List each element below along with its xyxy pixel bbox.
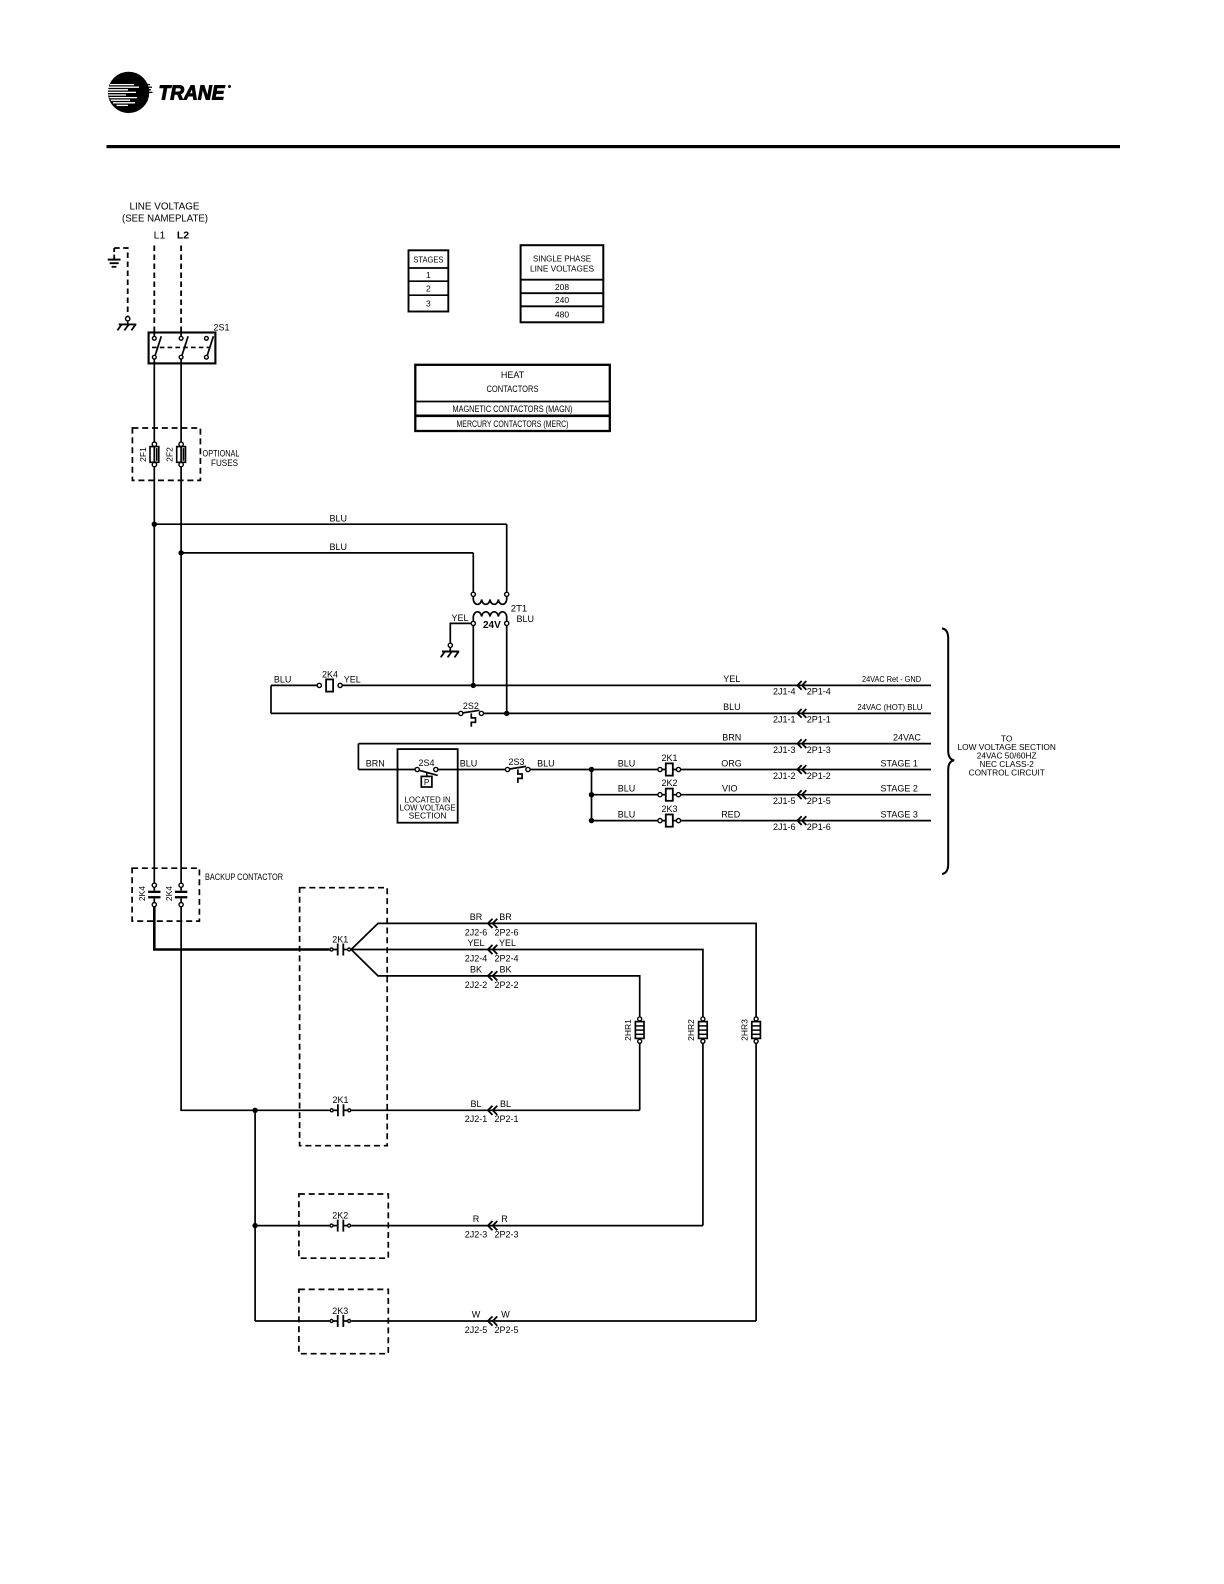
node junction stage bus mid xyxy=(589,792,594,797)
svg-text:CONTROL CIRCUIT: CONTROL CIRCUIT xyxy=(969,768,1045,778)
chassis ground (top left) xyxy=(117,317,136,331)
svg-text:2P1-1: 2P1-1 xyxy=(807,715,831,725)
svg-text:STAGE 2: STAGE 2 xyxy=(881,784,918,794)
svg-text:2J1-6: 2J1-6 xyxy=(773,822,796,832)
svg-text:VIO: VIO xyxy=(722,784,738,794)
svg-text:2J2-5: 2J2-5 xyxy=(465,1325,488,1335)
svg-text:BLU: BLU xyxy=(723,702,741,712)
wire R row left xyxy=(255,1225,329,1227)
wire 2HR1 bottom to BL row xyxy=(639,1043,641,1110)
svg-text:RED: RED xyxy=(721,809,741,819)
node junction BL branch xyxy=(252,1108,257,1113)
svg-text:MAGNETIC CONTACTORS (MAGN): MAGNETIC CONTACTORS (MAGN) xyxy=(453,404,573,414)
wire W row xyxy=(351,1320,756,1322)
relay coil 2K1 xyxy=(658,753,681,776)
svg-text:2P2-1: 2P2-1 xyxy=(494,1114,518,1124)
connector 2J1-3/2P1-3 xyxy=(773,739,831,755)
svg-text:2J1-1: 2J1-1 xyxy=(773,715,796,725)
svg-text:2S2: 2S2 xyxy=(463,701,479,711)
svg-text:FUSES: FUSES xyxy=(211,458,238,468)
svg-text:BLU: BLU xyxy=(329,513,347,523)
node junction YEL-secondary xyxy=(471,683,476,688)
wire secondary left drop xyxy=(472,626,474,686)
svg-text:W: W xyxy=(472,1310,481,1320)
heat contactors table xyxy=(415,365,610,431)
svg-text:2K1: 2K1 xyxy=(332,934,348,944)
svg-text:LINE VOLTAGES: LINE VOLTAGES xyxy=(530,264,594,274)
node junction L1-BLU xyxy=(152,522,157,527)
svg-text:2P2-3: 2P2-3 xyxy=(494,1230,518,1240)
brace to low voltage section xyxy=(942,628,954,874)
svg-text:OPTIONAL: OPTIONAL xyxy=(203,449,240,459)
connector 2J1-6/2P1-6 xyxy=(773,816,831,832)
contact 2K1 (lower) xyxy=(330,1095,351,1116)
svg-text:1: 1 xyxy=(426,270,431,280)
svg-text:STAGE 1: STAGE 1 xyxy=(881,758,918,768)
svg-text:2J1-4: 2J1-4 xyxy=(773,687,796,697)
svg-text:BLU: BLU xyxy=(537,758,555,768)
switch 2S3 xyxy=(505,757,530,783)
relay coil 2K3 xyxy=(658,804,681,827)
svg-text:2J2-6: 2J2-6 xyxy=(465,927,488,937)
svg-text:P: P xyxy=(424,777,430,787)
svg-text:2S3: 2S3 xyxy=(508,757,524,767)
wire STAGE2 row xyxy=(592,794,932,796)
svg-text:BRN: BRN xyxy=(722,732,741,742)
svg-text:BLU: BLU xyxy=(618,758,636,768)
wire BRN stub to 2S4 xyxy=(358,769,415,771)
heater 2HR2 xyxy=(686,1017,707,1043)
wire STAGE3 row xyxy=(592,820,932,822)
svg-text:3: 3 xyxy=(426,299,431,309)
svg-text:BACKUP CONTACTOR: BACKUP CONTACTOR xyxy=(205,872,283,883)
chassis ground (transformer) xyxy=(441,643,460,657)
svg-text:2K2: 2K2 xyxy=(661,778,677,788)
optional fuses dashed box xyxy=(132,428,200,480)
svg-text:(SEE NAMEPLATE): (SEE NAMEPLATE) xyxy=(122,213,208,225)
svg-text:2K4: 2K4 xyxy=(164,886,174,901)
svg-text:TRANE: TRANE xyxy=(159,83,226,105)
svg-text:STAGES: STAGES xyxy=(413,255,443,265)
svg-text:2HR2: 2HR2 xyxy=(686,1019,696,1041)
svg-text:YEL: YEL xyxy=(452,613,469,623)
svg-text:24VAC (HOT) BLU: 24VAC (HOT) BLU xyxy=(857,702,922,712)
wire YEL to ground xyxy=(450,623,471,643)
wire BLU lower xyxy=(181,552,473,554)
svg-text:2J2-1: 2J2-1 xyxy=(465,1114,488,1124)
wire secondary right drop xyxy=(506,626,508,714)
node junction R branch xyxy=(252,1223,257,1228)
wire L2 rail xyxy=(180,359,182,883)
svg-text:L2: L2 xyxy=(177,230,189,242)
svg-text:BRN: BRN xyxy=(366,758,385,768)
svg-text:2F2: 2F2 xyxy=(165,447,175,462)
svg-text:BLU: BLU xyxy=(517,614,535,624)
svg-text:208: 208 xyxy=(555,282,569,292)
svg-text:480: 480 xyxy=(555,310,569,320)
svg-text:SINGLE PHASE: SINGLE PHASE xyxy=(533,254,591,264)
wire fan BK xyxy=(351,950,640,1017)
svg-text:BLU: BLU xyxy=(274,674,292,684)
svg-text:2K1: 2K1 xyxy=(332,1095,348,1105)
svg-text:2J2-3: 2J2-3 xyxy=(465,1230,488,1240)
switch 2S2 xyxy=(459,701,484,727)
svg-text:2J1-3: 2J1-3 xyxy=(773,745,796,755)
node junction stage bus top xyxy=(589,767,594,772)
wire 2HR2 bottom to R row xyxy=(702,1043,704,1225)
wire fan BR xyxy=(351,923,756,1016)
heater 2HR3 xyxy=(739,1017,760,1043)
svg-text:HEAT: HEAT xyxy=(501,370,525,380)
wire BLU upper xyxy=(154,523,506,525)
wire L1 rail xyxy=(153,359,155,883)
svg-text:R: R xyxy=(501,1214,508,1224)
svg-text:2P2-4: 2P2-4 xyxy=(494,953,518,963)
dashed box 2K3 xyxy=(299,1289,388,1353)
wire BLU row (24VAC HOT) xyxy=(271,712,459,714)
pressure switch 2S4 box xyxy=(398,749,458,823)
wire dashed ground jumper xyxy=(114,248,128,316)
svg-text:BLU: BLU xyxy=(460,758,478,768)
relay coil 2K2 xyxy=(658,778,681,801)
node junction BLU-secondary xyxy=(504,711,509,716)
svg-text:2J1-5: 2J1-5 xyxy=(773,796,796,806)
Trane logo circle xyxy=(108,72,153,113)
wire W row left xyxy=(255,1320,329,1322)
contact 2K4-a xyxy=(137,883,160,907)
transformer 2T1 xyxy=(452,592,535,631)
svg-text:YEL: YEL xyxy=(723,674,740,684)
svg-text:2F1: 2F1 xyxy=(138,447,148,462)
svg-text:BLU: BLU xyxy=(618,784,636,794)
svg-text:2J2-2: 2J2-2 xyxy=(465,980,488,990)
connector 2J2-3/2P2-3 xyxy=(465,1214,519,1239)
wire fan YEL xyxy=(351,950,703,1017)
wire R row xyxy=(351,1225,703,1227)
contact 2K3 xyxy=(330,1306,351,1327)
svg-text:2K3: 2K3 xyxy=(332,1306,348,1316)
svg-text:2P1-5: 2P1-5 xyxy=(807,796,831,806)
connector 2J1-1/2P1-1 xyxy=(773,709,831,725)
connector 2J1-4/2P1-4 xyxy=(773,681,831,697)
svg-text:2: 2 xyxy=(426,283,431,293)
wire STAGE1 row xyxy=(530,769,931,771)
contact 2K1 (upper) xyxy=(330,934,351,955)
contact 2K2 xyxy=(330,1211,351,1232)
svg-text:CONTACTORS: CONTACTORS xyxy=(487,384,539,394)
connector 2J2-1/2P2-1 xyxy=(465,1099,519,1124)
single phase line voltages table xyxy=(521,245,604,322)
contact 2K4-b xyxy=(164,883,187,907)
svg-text:2P1-4: 2P1-4 xyxy=(807,687,831,697)
svg-text:BK: BK xyxy=(499,965,511,975)
svg-text:2P1-2: 2P1-2 xyxy=(807,771,831,781)
node junction L2-BLU xyxy=(178,550,183,555)
svg-text:BR: BR xyxy=(470,912,483,922)
connector 2J2-2/2P2-2 xyxy=(465,965,519,990)
svg-text:2P2-5: 2P2-5 xyxy=(494,1325,518,1335)
svg-text:24VAC: 24VAC xyxy=(893,732,921,742)
svg-text:2P2-2: 2P2-2 xyxy=(494,980,518,990)
wire L2 dashed drop xyxy=(180,246,182,333)
wire L2 down to BL row xyxy=(181,907,330,1111)
wire BL row xyxy=(351,1109,639,1111)
svg-text:MERCURY CONTACTORS (MERC): MERCURY CONTACTORS (MERC) xyxy=(457,419,569,429)
earth ground xyxy=(108,248,121,267)
svg-text:2J1-2: 2J1-2 xyxy=(773,771,796,781)
svg-text:2S1: 2S1 xyxy=(214,323,230,333)
svg-text:W: W xyxy=(501,1310,510,1320)
wire YEL row (24VAC Ret) xyxy=(342,684,931,686)
connector 2J2-4/2P2-4 xyxy=(465,938,519,963)
disconnect switch 2S1 xyxy=(149,323,230,364)
svg-text:YEL: YEL xyxy=(344,674,361,684)
svg-text:2S4: 2S4 xyxy=(418,758,434,768)
svg-text:24VAC Ret - GND: 24VAC Ret - GND xyxy=(862,674,921,684)
connector 2J1-2/2P1-2 xyxy=(773,765,831,781)
svg-text:YEL: YEL xyxy=(499,938,516,948)
header rule xyxy=(107,145,1121,148)
dashed box 2K2 xyxy=(299,1194,388,1258)
svg-text:2K4: 2K4 xyxy=(137,886,147,901)
connector 2J2-5/2P2-5 xyxy=(465,1310,519,1335)
relay coil 2K4 xyxy=(317,669,342,691)
svg-text:BL: BL xyxy=(500,1099,511,1109)
svg-text:2HR3: 2HR3 xyxy=(739,1019,749,1041)
svg-text:BR: BR xyxy=(499,912,512,922)
wire 2S4 to 2S3 xyxy=(438,769,506,771)
note: TO LOW VOLTAGE SECTION xyxy=(958,734,1056,778)
svg-text:24V: 24V xyxy=(483,620,501,631)
backup contactor dashed box xyxy=(132,868,199,921)
connector 2J2-6/2P2-6 xyxy=(465,912,519,937)
svg-text:LINE VOLTAGE: LINE VOLTAGE xyxy=(130,201,200,213)
svg-text:SECTION: SECTION xyxy=(409,811,447,821)
svg-text:BLU: BLU xyxy=(618,809,636,819)
stages table xyxy=(409,250,449,311)
svg-text:L1: L1 xyxy=(154,230,166,242)
svg-text:R: R xyxy=(473,1214,480,1224)
svg-text:2P2-6: 2P2-6 xyxy=(494,927,518,937)
svg-text:YEL: YEL xyxy=(467,938,484,948)
dashed box 2K1 contacts xyxy=(300,888,388,1146)
svg-text:240: 240 xyxy=(555,295,569,305)
svg-text:2P1-3: 2P1-3 xyxy=(807,745,831,755)
svg-text:2HR1: 2HR1 xyxy=(623,1019,633,1041)
svg-text:2K3: 2K3 xyxy=(661,804,677,814)
svg-text:2J2-4: 2J2-4 xyxy=(465,953,488,963)
svg-text:2P1-6: 2P1-6 xyxy=(807,822,831,832)
svg-text:ORG: ORG xyxy=(721,758,742,768)
wire L1 dashed drop xyxy=(153,246,155,333)
svg-text:2K1: 2K1 xyxy=(661,753,677,763)
fuse 2F2 xyxy=(165,442,186,467)
wire stage bus vertical xyxy=(591,770,593,821)
svg-text:2K4: 2K4 xyxy=(322,669,338,679)
heater 2HR1 xyxy=(623,1017,644,1043)
svg-text:2K2: 2K2 xyxy=(332,1211,348,1221)
wire L1 to 2K1 contact xyxy=(154,907,329,950)
wire 2HR3 bottom to W row xyxy=(755,1043,757,1321)
fuse 2F1 xyxy=(138,442,159,467)
wire branch down xyxy=(254,1110,256,1321)
wire BRN row (24VAC) xyxy=(358,743,931,745)
svg-text:BL: BL xyxy=(470,1099,481,1109)
connector 2J1-5/2P1-5 xyxy=(773,790,831,806)
svg-text:STAGE 3: STAGE 3 xyxy=(881,809,918,819)
svg-text:BLU: BLU xyxy=(329,542,347,552)
svg-text:BK: BK xyxy=(470,965,482,975)
